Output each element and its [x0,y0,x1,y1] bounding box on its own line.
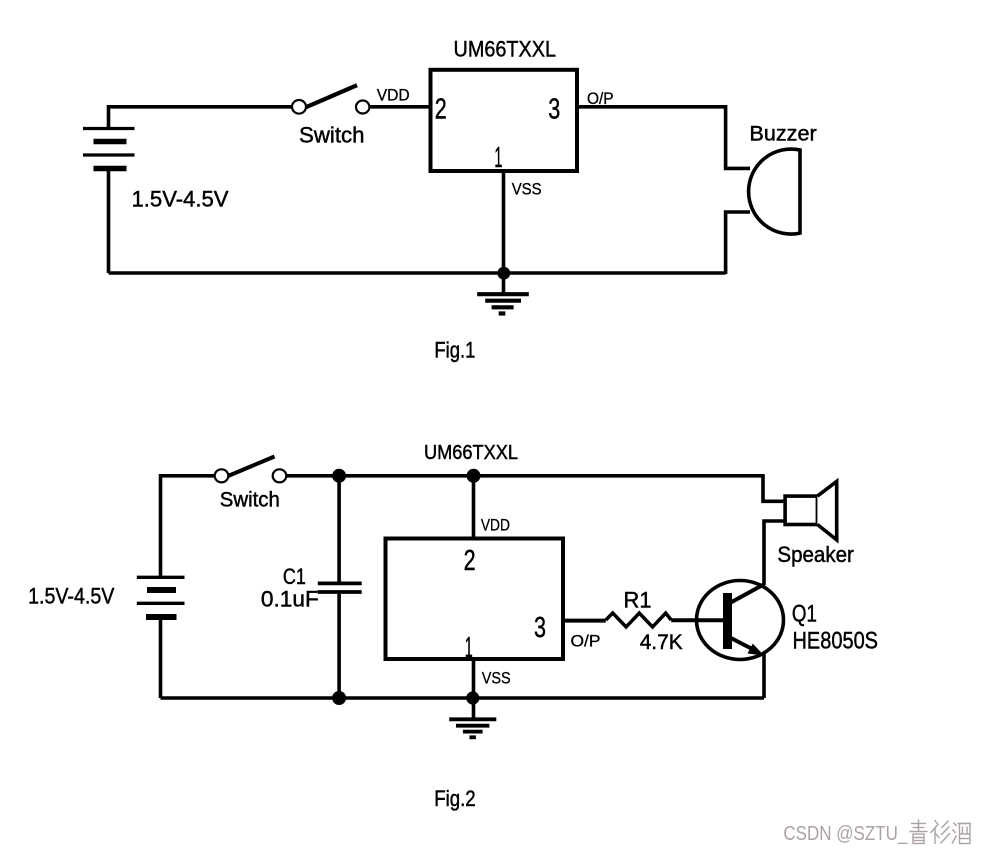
svg-text:C1: C1 [283,564,306,589]
wire buzzer bottom to bottom rail (Fig.1) [726,212,750,274]
svg-text:VDD: VDD [481,516,510,534]
wire collector to speaker bottom terminal (Fig.2) [764,521,785,585]
svg-text:Fig.1: Fig.1 [434,337,475,362]
ground symbol (Fig.1) [477,294,529,313]
svg-text:Speaker: Speaker [777,542,854,567]
wire C1 bottom lead (Fig.2) [337,594,341,698]
svg-text:1: 1 [465,632,473,664]
op chip U1 UM66TXXL rectangle (Fig.1) [431,70,578,171]
svg-text:3: 3 [548,94,560,126]
transistor Q1 collector line (Fig.2) [729,584,765,604]
node junction dot VDD (Fig.2) [467,469,481,483]
svg-text:2: 2 [435,94,447,126]
watermark glyph jiu [952,823,971,844]
wire Fig2 battery top stem to top rail [161,476,216,576]
transistor Q1 base bar (Fig.2) [723,593,732,649]
svg-text:2: 2 [464,545,476,577]
switch SW1 (Fig.1) [292,85,369,113]
wire VDD from switch to chip pin 2 (Fig.1) [369,105,428,109]
battery B1 1.5V-4.5V (Fig.1) [83,129,135,169]
wire C1 top lead (Fig.2) [337,476,341,582]
buzzer BZ1 (Fig.1) [749,149,800,234]
svg-text:1.5V-4.5V: 1.5V-4.5V [28,584,115,609]
wire Fig1 battery bottom to bottom rail [107,167,111,273]
switch SW2 (Fig.2) [215,457,287,483]
svg-text:VSS: VSS [482,669,511,688]
wire resistor to transistor base (Fig.2) [671,618,723,622]
capacitor C1 plates (Fig.2) [318,583,362,592]
svg-text:VSS: VSS [512,180,542,199]
speaker LS1 box (Fig.2) [785,496,817,524]
wire O/P chip pin3 to resistor (Fig.2) [563,619,606,623]
op chip U2 UM66TXXL rectangle (Fig.2) [386,539,564,660]
svg-text:O/P: O/P [571,632,601,651]
wire O/P from chip pin 3 to buzzer top (Fig.1) [577,107,750,169]
svg-text:VDD: VDD [377,87,410,105]
svg-text:UM66TXXL: UM66TXXL [454,36,557,61]
svg-text:Switch: Switch [220,488,280,511]
svg-text:UM66TXXL: UM66TXXL [424,442,518,464]
svg-text:3: 3 [534,612,546,644]
battery B2 1.5V-4.5V (Fig.2) [137,577,185,617]
svg-text:0.1uF: 0.1uF [261,587,319,612]
node junction dot C1 top (Fig.2) [332,469,346,483]
svg-text:1.5V-4.5V: 1.5V-4.5V [132,186,229,211]
wire Fig2 bottom rail [161,696,765,700]
svg-text:CSDN @SZTU_: CSDN @SZTU_ [783,822,907,845]
node junction dot VSS (Fig.2) [466,691,479,704]
watermark glyph qing [910,820,928,844]
wire VSS chip to bottom rail (Fig.2) [472,659,476,718]
transistor Q1 HE8050S circle (Fig.2) [697,581,784,660]
wire emitter to bottom rail (Fig.2) [762,653,766,698]
node junction dot (Fig.1) [497,267,510,280]
svg-text:HE8050S: HE8050S [793,627,879,654]
wire top rail corner down to speaker top terminal (Fig.2) [763,474,785,501]
resistor R1 zigzag (Fig.2) [606,613,671,627]
svg-text:4.7K: 4.7K [640,631,683,654]
speaker LS1 horn (Fig.2) [817,481,836,540]
node junction dot C1 bottom (Fig.2) [332,691,346,705]
svg-text:Switch: Switch [299,123,365,148]
svg-text:R1: R1 [624,587,652,612]
watermark glyph shan [931,820,951,844]
wire Fig1 bottom rail [109,271,726,275]
svg-text:Q1: Q1 [792,601,817,628]
wire VDD from top rail to chip (Fig.2) [472,476,476,539]
svg-text:O/P: O/P [587,89,614,108]
svg-text:1: 1 [494,142,502,174]
wire Fig1 top rail from battery to switch [109,107,293,130]
wire Fig2 battery bottom stem [159,619,163,699]
ground symbol (Fig.2) [449,719,496,737]
svg-text:Fig.2: Fig.2 [434,786,476,811]
transistor Q1 emitter line with arrow (Fig.2) [729,637,764,656]
svg-text:Buzzer: Buzzer [749,123,816,146]
wire Fig2 top rail from switch to speaker corner [286,474,763,478]
wire VSS from chip pin 1 to ground (Fig.1) [502,171,506,293]
